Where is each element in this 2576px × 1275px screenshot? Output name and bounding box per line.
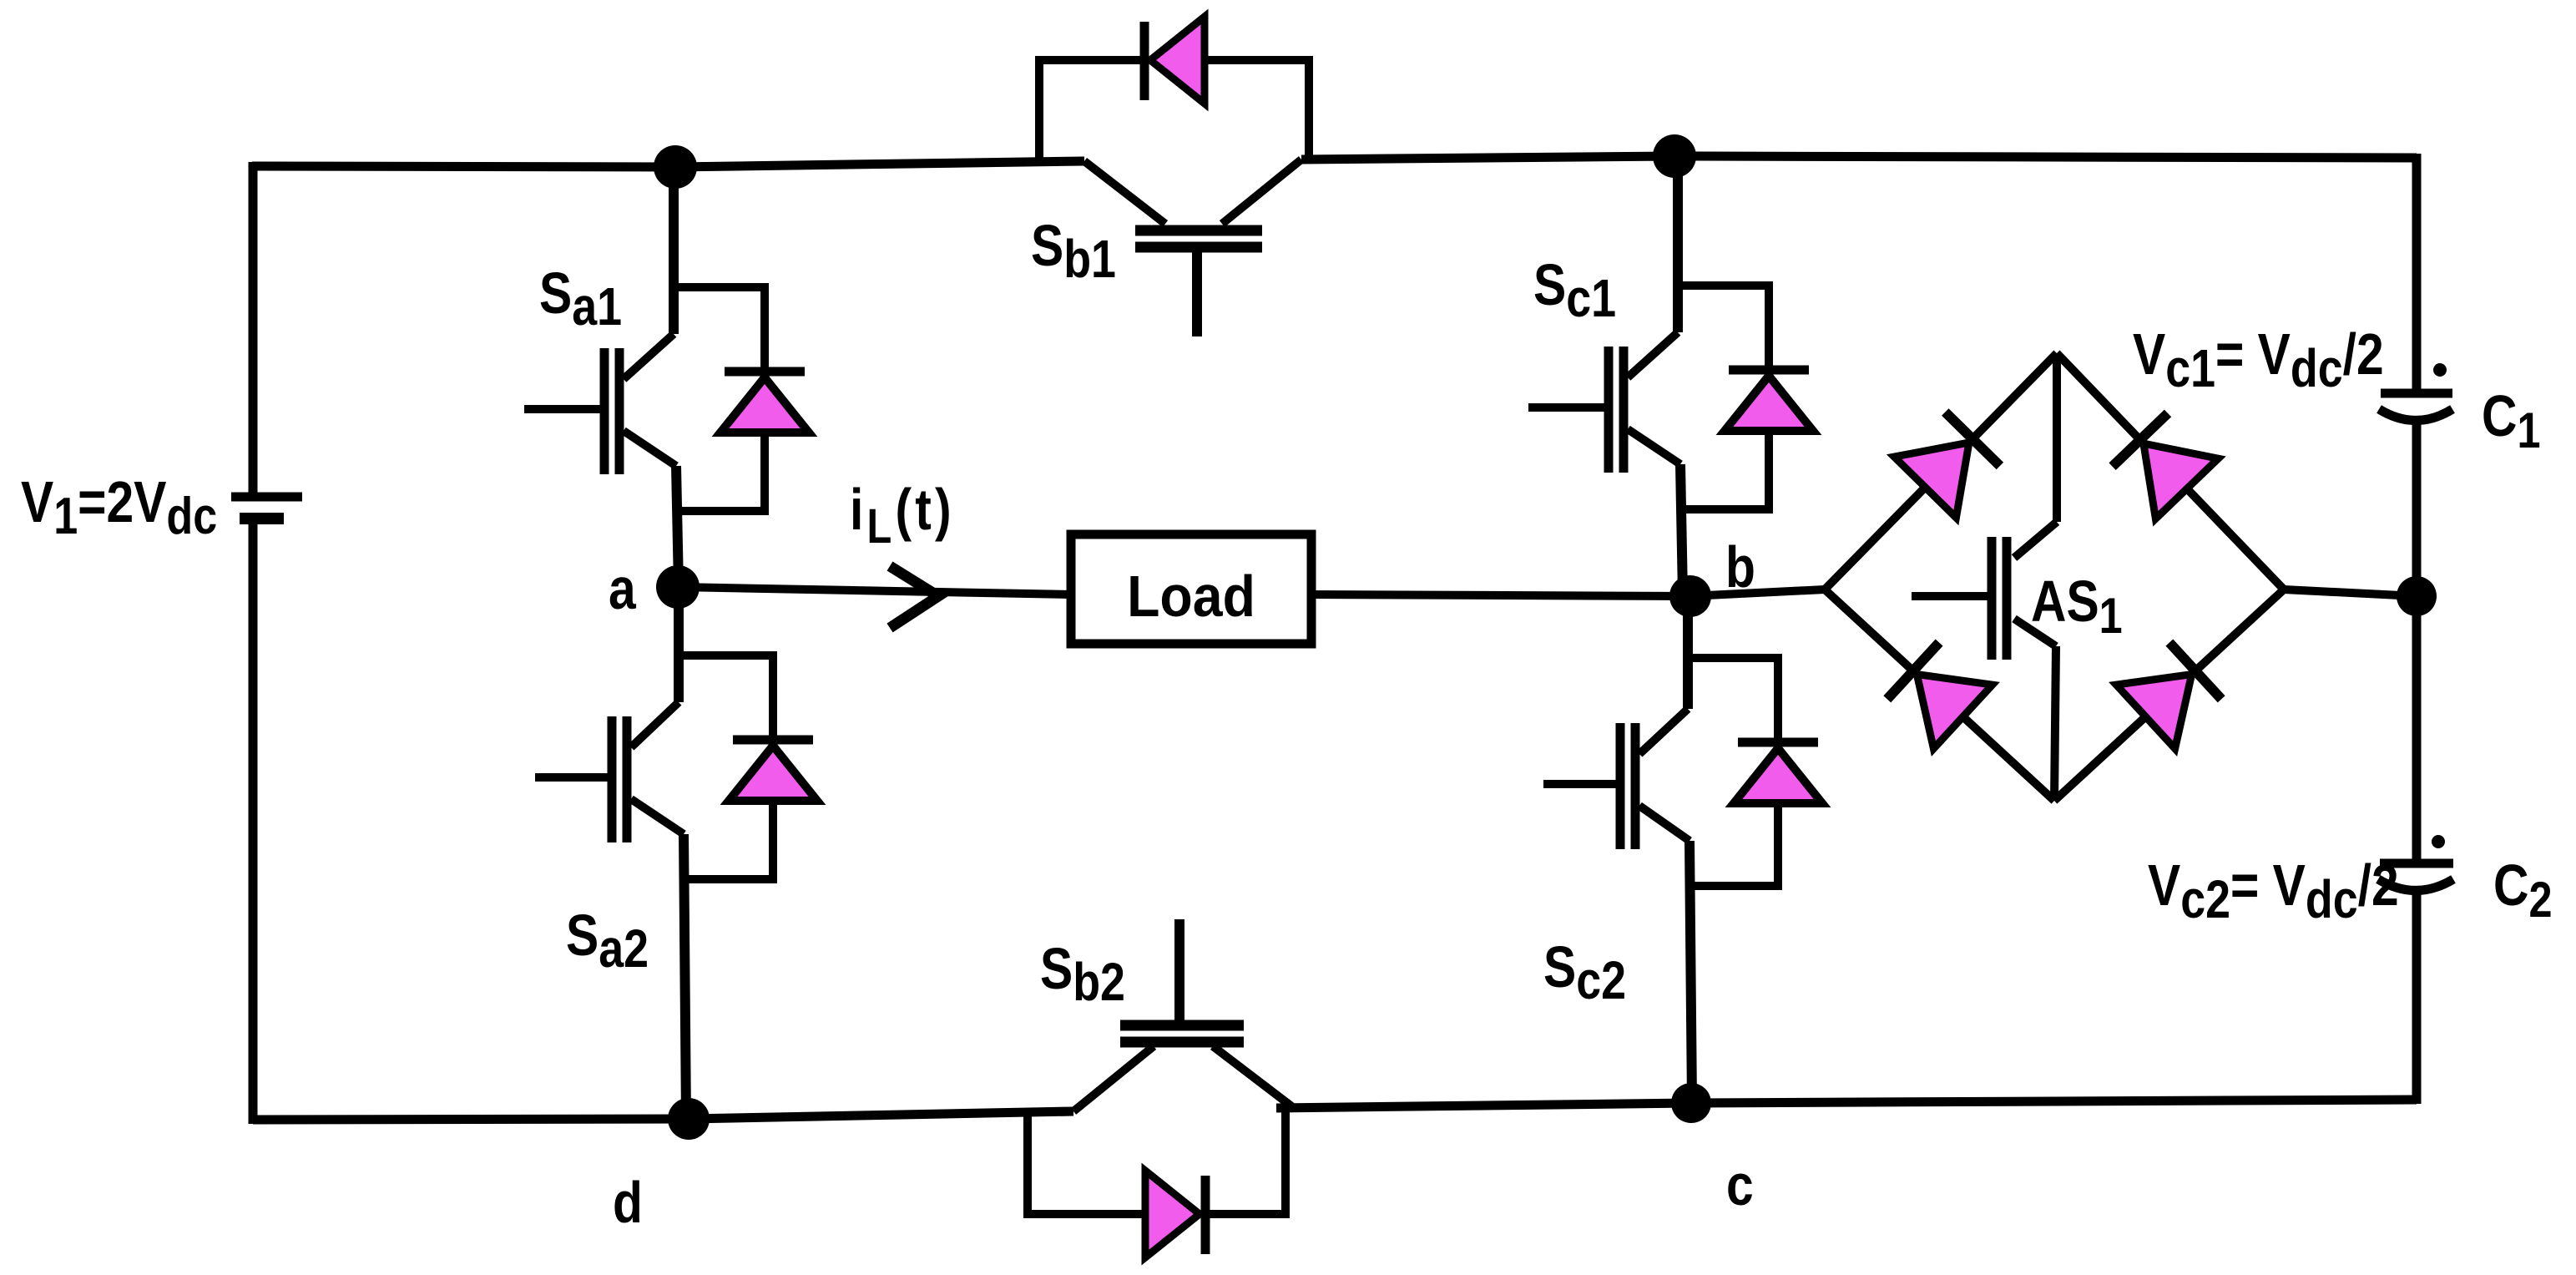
node c junction dot — [1671, 1083, 1711, 1123]
wire node b to bridge left vertex — [1690, 589, 1825, 596]
svg-text:Sc2: Sc2 — [1543, 933, 1626, 1010]
junction dot top of leg a — [654, 145, 697, 189]
voltage source V1 battery plates — [231, 497, 302, 519]
bridge diode upper-right (anode right vertex) — [2113, 413, 2219, 519]
svg-text:Load: Load — [1127, 564, 1255, 630]
label Vc1 = Vdc/2 — [2133, 321, 2384, 398]
wire top rail left segment — [252, 161, 1084, 167]
label Sb1 — [1031, 212, 1116, 289]
svg-text:Vc1= Vdc/2: Vc1= Vdc/2 — [2133, 321, 2384, 398]
antiparallel diode of Sc1 — [1725, 281, 1813, 514]
IGBT Sa2 — [535, 587, 773, 1119]
bridge arm lower-left — [1825, 589, 2054, 801]
polarity dot C1 — [2433, 363, 2447, 377]
wire right rail upper — [2412, 154, 2422, 389]
label node a — [609, 555, 637, 621]
label Sb2 — [1040, 935, 1125, 1012]
wire bridge right vertex to rail — [2284, 589, 2417, 596]
label AS1 — [2031, 568, 2123, 644]
wire left rail lower — [249, 523, 258, 1124]
IGBT Sb2 — [1073, 919, 1294, 1111]
wire right rail lower — [2412, 890, 2422, 1104]
IGBT Sc1 — [1528, 153, 1769, 596]
label node d — [613, 1169, 643, 1235]
polarity dot C2 — [2432, 835, 2445, 848]
node b junction dot — [1669, 575, 1711, 617]
label C2 — [2493, 852, 2552, 928]
IGBT Sa1 — [524, 164, 765, 587]
svg-text:Vc2= Vdc/2: Vc2= Vdc/2 — [2148, 852, 2399, 929]
label Sc1 — [1533, 251, 1616, 328]
node d junction dot — [668, 1098, 710, 1140]
antiparallel diode of Sa1 — [720, 283, 809, 515]
antiparallel diode of Sa2 — [729, 651, 817, 883]
svg-text:iL(t): iL(t) — [850, 476, 955, 554]
label Sc2 — [1543, 933, 1626, 1010]
bridge diode lower-right (anode bottom vertex) — [2116, 643, 2221, 749]
wire node a to load — [678, 587, 1071, 594]
wire left rail upper — [249, 162, 258, 493]
label Sa1 — [539, 260, 622, 336]
capacitor C2 — [2378, 863, 2453, 891]
node a junction dot — [656, 565, 700, 609]
capacitor C1 — [2379, 393, 2452, 421]
label Vc2 = Vdc/2 — [2148, 852, 2399, 929]
wire bottom rail left segment — [253, 1111, 1073, 1120]
label node b — [1725, 534, 1755, 600]
svg-text:Sb2: Sb2 — [1040, 935, 1125, 1012]
IGBT Sc2 — [1543, 596, 1778, 1103]
current arrow iL — [890, 566, 938, 628]
label C1 — [2482, 382, 2540, 458]
antiparallel diode of Sc2 — [1734, 654, 1822, 890]
wire bottom rail right segment — [1276, 1100, 2417, 1108]
bridge diode upper-left (anode left vertex) — [1894, 412, 2000, 519]
load box — [1071, 534, 1311, 644]
wire right rail middle — [2412, 420, 2422, 859]
svg-text:C1: C1 — [2482, 382, 2540, 458]
label Sa2 — [566, 902, 649, 979]
wire load to node b — [1311, 594, 1690, 596]
junction dot right rail mid — [2397, 576, 2437, 616]
wire top rail right segment — [1301, 156, 2417, 159]
bridge arm lower-right — [2054, 589, 2284, 801]
bridge arm upper-right — [2057, 353, 2284, 589]
label iL(t) — [850, 476, 955, 554]
bridge diode lower-left (anode bottom vertex) — [1887, 643, 1993, 749]
label V1=2Vdc — [21, 468, 217, 545]
svg-text:V1=2Vdc: V1=2Vdc — [21, 468, 217, 545]
IGBT Sb1 — [1084, 159, 1301, 336]
bridge arm upper-left — [1825, 353, 2057, 589]
svg-text:a: a — [609, 555, 637, 621]
IGBT AS1 — [1912, 353, 2057, 801]
svg-text:Sc1: Sc1 — [1533, 251, 1616, 328]
antiparallel diode of Sb2 — [1028, 1108, 1285, 1257]
svg-text:Sb1: Sb1 — [1031, 212, 1116, 289]
svg-text:AS1: AS1 — [2031, 568, 2123, 644]
antiparallel diode of Sb1 — [1039, 17, 1309, 166]
junction dot top of leg c — [1653, 134, 1696, 178]
svg-text:d: d — [613, 1169, 643, 1235]
svg-text:C2: C2 — [2493, 852, 2552, 928]
svg-text:Sa1: Sa1 — [539, 260, 622, 336]
svg-text:c: c — [1726, 1151, 1754, 1217]
label node c — [1726, 1151, 1754, 1217]
svg-text:Sa2: Sa2 — [566, 902, 649, 979]
label Load — [1127, 564, 1255, 630]
